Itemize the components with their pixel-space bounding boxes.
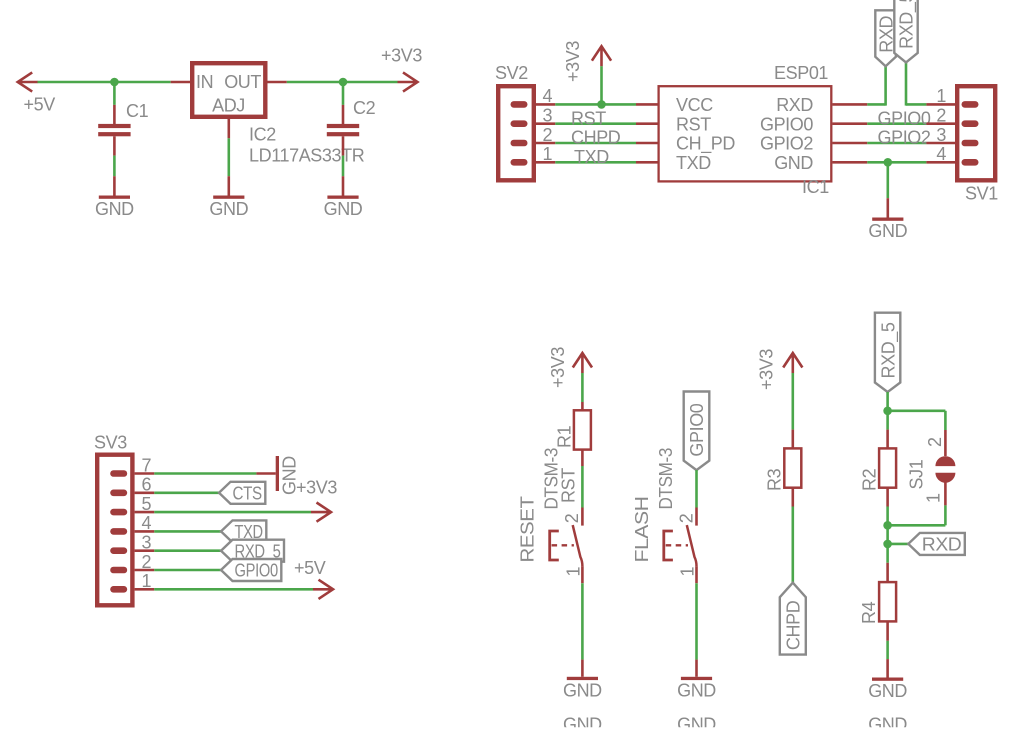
svg-text:1: 1 <box>543 144 553 164</box>
connector SV1 pad 2 <box>962 120 979 127</box>
pin SV2 4 <box>536 103 555 106</box>
wire net GND right <box>867 161 926 164</box>
svg-text:GND: GND <box>95 199 134 219</box>
junction RXD <box>883 540 892 549</box>
svg-text:RXD: RXD <box>776 95 813 115</box>
svg-text:+3V3: +3V3 <box>757 349 777 390</box>
svg-text:GPIO0: GPIO0 <box>878 108 931 128</box>
pin IC1 VCC left <box>636 103 659 106</box>
switch lever S2 FLASH <box>687 525 697 566</box>
pin IC1 CH_PD left <box>636 142 659 145</box>
pin SV2 1 <box>536 161 555 164</box>
resistor R2 <box>879 448 896 487</box>
svg-text:GND: GND <box>677 715 716 735</box>
wire net CHPD <box>555 142 636 145</box>
pin SV2 2 <box>536 142 555 145</box>
ground GND (R4) <box>872 678 903 681</box>
wire net GPIO2 right <box>867 142 926 145</box>
connector SV3 pad 4 <box>110 528 127 535</box>
svg-text:CTS: CTS <box>233 483 263 503</box>
ground GND (C1) <box>99 196 130 199</box>
svg-text:GPIO0: GPIO0 <box>760 114 813 134</box>
svg-text:GPIO0: GPIO0 <box>235 561 279 581</box>
net flag RXD_5 (R2) <box>875 313 900 392</box>
ic IC2 body <box>192 63 265 117</box>
svg-text:ADJ: ADJ <box>212 96 245 116</box>
net flag RXD_5 (top) <box>894 0 917 62</box>
pin SV1 4 <box>926 161 955 164</box>
power arrow +3V3 (R3) <box>783 353 802 373</box>
net flag RXD (top) <box>875 10 896 66</box>
svg-text:RXD_5: RXD_5 <box>897 0 918 49</box>
svg-text:1: 1 <box>936 86 946 106</box>
svg-text:GND: GND <box>563 715 602 735</box>
wire net GPIO0 right <box>867 122 926 125</box>
svg-text:4: 4 <box>543 86 553 106</box>
pin R1 bottom <box>581 450 584 466</box>
svg-text:GND: GND <box>324 199 363 219</box>
svg-text:IN: IN <box>196 72 213 92</box>
ground GND (C2) <box>327 196 358 199</box>
pin C1 top <box>113 105 116 125</box>
svg-text:+3V3: +3V3 <box>548 347 568 388</box>
svg-text:SV1: SV1 <box>965 184 998 204</box>
connector SV3 pad 1 <box>110 586 127 593</box>
wire S1 RESET to GND <box>581 583 584 659</box>
wire net TXD <box>555 161 636 164</box>
wire GND down <box>886 162 889 198</box>
wire C2 up <box>342 82 345 105</box>
connector SV3 pad 6 <box>110 490 127 497</box>
svg-text:RXD_5: RXD_5 <box>878 322 899 378</box>
capacitor C1 <box>98 124 130 128</box>
svg-text:GND: GND <box>868 221 907 241</box>
wire SJ1 bottom to junction <box>888 524 946 527</box>
wire junction to RXD flag <box>888 543 909 546</box>
ground GND (S2 FLASH) <box>681 677 712 680</box>
wire +3V3 to R1 <box>581 373 584 402</box>
svg-text:GPIO0: GPIO0 <box>687 403 707 456</box>
connector SV1 pad 1 <box>962 101 979 108</box>
wire net RXD_5 to SV1 <box>906 103 926 106</box>
connector SV3 pad 7 <box>110 470 127 477</box>
svg-text:RST: RST <box>559 468 579 503</box>
svg-text:CHPD: CHPD <box>784 600 804 650</box>
svg-text:RST: RST <box>571 108 606 128</box>
wire net CTS <box>154 491 219 494</box>
jumper SJ1 <box>935 456 955 466</box>
pin R2 top <box>886 430 889 449</box>
pin SV3 3 <box>135 549 155 552</box>
svg-text:LD117AS33TR: LD117AS33TR <box>249 146 365 166</box>
ground GND (S1 RESET) <box>567 677 598 680</box>
wire SJ1 bottom vertical <box>944 505 947 525</box>
power arrow +3V3 right <box>398 72 418 91</box>
pin SV1 2 <box>926 122 955 125</box>
connector SV3 body <box>97 455 132 606</box>
label GND partial (R4) <box>868 715 907 735</box>
net flag CHPD <box>780 583 806 655</box>
wire C1 to GND <box>113 156 116 177</box>
switch housing S2 FLASH <box>664 531 673 560</box>
net flag TXD <box>221 520 266 542</box>
pin IC1 RST left <box>636 122 659 125</box>
ground pin (ADJ) <box>228 176 231 195</box>
pin IC1 GPIO2 right <box>833 142 868 145</box>
pin IC2 OUT <box>266 81 287 84</box>
ground pin (S1 RESET) <box>581 660 584 677</box>
svg-text:IC2: IC2 <box>249 125 276 145</box>
svg-text:4: 4 <box>142 513 152 533</box>
wire +3V3 to R3 <box>791 373 794 430</box>
svg-text:C1: C1 <box>126 101 149 121</box>
wire net GND (SV3 pin7) <box>154 472 256 475</box>
wire flag RXD_5 down <box>905 62 908 105</box>
pin IC1 GPIO0 right <box>833 122 868 125</box>
pin C2 bottom <box>342 136 345 155</box>
power arrow +5V (SV3) <box>313 580 333 599</box>
wire RXD_5 flag down <box>886 392 889 430</box>
ground pin (SV3) <box>256 472 275 475</box>
wire C1 up <box>113 82 116 105</box>
pin SV3 4 <box>135 530 155 533</box>
pin IC1 RXD right <box>833 103 868 106</box>
svg-text:1: 1 <box>142 571 152 591</box>
wire net +3V3 (SV3 pin5) <box>154 511 311 514</box>
power arrow +3V3 (RESET) <box>573 353 592 373</box>
svg-text:5: 5 <box>142 494 152 514</box>
wire IC1 RXD to flag <box>867 103 885 106</box>
wire net RST <box>555 122 636 125</box>
pin S2 FLASH 2 <box>695 508 698 526</box>
svg-text:RXD: RXD <box>922 535 962 555</box>
power arrow +3V3 (SV3) <box>311 503 331 522</box>
wire net VCC <box>555 103 636 106</box>
resistor R4 <box>879 582 896 621</box>
wire ADJ to GND <box>228 138 231 176</box>
power arrow +3V3 (VCC) <box>592 46 611 66</box>
svg-text:R3: R3 <box>765 468 785 491</box>
switch actuator dashed S1 RESET <box>552 544 574 546</box>
svg-text:RESET: RESET <box>518 496 538 562</box>
svg-text:2: 2 <box>925 437 945 447</box>
switch actuator dashed S2 FLASH <box>666 544 688 546</box>
connector SV1 pad 4 <box>962 159 979 166</box>
connector SV1 body <box>957 86 995 180</box>
wire SJ1 top vertical <box>944 411 947 430</box>
pin S1 RESET 1 <box>581 566 584 583</box>
pin SV3 1 <box>135 588 155 591</box>
wire +3V3 to VCC <box>600 66 603 104</box>
svg-text:ESP01: ESP01 <box>774 63 828 83</box>
svg-text:TXD: TXD <box>676 153 711 173</box>
pin S1 RESET 2 <box>581 508 584 526</box>
svg-text:4: 4 <box>936 144 946 164</box>
pin R3 bottom <box>791 488 794 507</box>
ground GND rotated (SV3) <box>276 456 279 491</box>
svg-text:2: 2 <box>142 552 152 572</box>
wire flag RXD down <box>884 66 887 105</box>
wire C2 to GND <box>342 156 345 177</box>
svg-text:2: 2 <box>562 513 582 523</box>
resistor R1 <box>574 410 591 449</box>
pin SV1 1 <box>926 103 955 106</box>
pin SV3 2 <box>135 569 155 572</box>
svg-text:7: 7 <box>142 455 152 475</box>
svg-text:3: 3 <box>936 125 946 145</box>
wire down to R4 <box>886 544 889 563</box>
svg-text:1: 1 <box>924 493 944 503</box>
junction +5V at C1 <box>110 78 119 87</box>
svg-text:GND: GND <box>677 680 716 700</box>
svg-text:GND: GND <box>563 680 602 700</box>
connector SV2 pad 2 <box>511 140 528 147</box>
svg-text:VCC: VCC <box>676 95 713 115</box>
net flag RXD (R4) <box>908 533 965 555</box>
svg-text:2: 2 <box>676 513 696 523</box>
svg-text:+3V3: +3V3 <box>563 41 583 82</box>
wire R3 to CHPD flag <box>791 507 794 583</box>
wire net RXD_5 (SV3) <box>154 549 221 552</box>
pin SV2 3 <box>536 122 555 125</box>
resistor R3 <box>784 448 801 487</box>
svg-text:+3V3: +3V3 <box>296 478 337 498</box>
svg-text:FLASH: FLASH <box>632 497 652 563</box>
wire net +5V (SV3) <box>154 588 313 591</box>
connector SV2 pad 4 <box>511 101 528 108</box>
svg-text:DTSM-3: DTSM-3 <box>656 448 676 510</box>
connector SV2 pad 1 <box>511 159 528 166</box>
junction +3V3 at C2 <box>339 78 348 87</box>
pin C2 top <box>342 105 345 125</box>
label GND partial (FLASH) <box>677 715 716 735</box>
junction GND net <box>884 158 893 167</box>
connector SV3 pad 2 <box>110 567 127 574</box>
pin R1 top <box>581 402 584 410</box>
svg-text:SV2: SV2 <box>495 63 528 83</box>
svg-text:C2: C2 <box>353 98 376 118</box>
wire net TXD (SV3) <box>154 530 221 533</box>
svg-text:CH_PD: CH_PD <box>676 134 735 155</box>
svg-text:RST: RST <box>676 114 711 134</box>
svg-text:SV3: SV3 <box>94 433 127 453</box>
pin SJ1 2 <box>944 430 947 456</box>
svg-text:2: 2 <box>936 106 946 126</box>
pin SV1 3 <box>926 142 955 145</box>
ground pin (C1) <box>113 176 116 195</box>
ground pin (R4) <box>886 659 889 677</box>
switch lever S1 RESET <box>573 525 583 566</box>
ground GND (ADJ) <box>213 196 244 199</box>
svg-text:+3V3: +3V3 <box>381 46 422 66</box>
svg-text:IC1: IC1 <box>802 177 829 197</box>
connector SV3 pad 3 <box>110 547 127 554</box>
pin R4 bottom <box>886 621 889 640</box>
wire GPIO0 to switch <box>695 470 698 507</box>
pin S2 FLASH 1 <box>695 566 698 583</box>
wire S2 FLASH to GND <box>695 583 698 659</box>
svg-text:1: 1 <box>564 567 584 577</box>
pin IC2 ADJ <box>228 119 231 138</box>
svg-text:TXD: TXD <box>574 147 609 167</box>
pin C1 bottom <box>113 136 116 155</box>
svg-text:GND: GND <box>209 199 248 219</box>
svg-text:OUT: OUT <box>224 72 261 92</box>
svg-text:R2: R2 <box>860 468 880 491</box>
junction R2-SJ1 <box>883 521 892 530</box>
svg-text:GPIO2: GPIO2 <box>760 134 813 154</box>
svg-text:SJ1: SJ1 <box>907 459 927 489</box>
label GND partial (RESET) <box>563 715 602 735</box>
net flag CTS <box>219 482 265 504</box>
ground GND (IC1) <box>872 218 903 221</box>
pin R4 top <box>886 563 889 582</box>
svg-text:R1: R1 <box>555 425 575 448</box>
net flag GPIO0 <box>221 559 281 581</box>
pin IC2 IN <box>171 81 192 84</box>
svg-text:3: 3 <box>543 106 553 126</box>
capacitor C2 <box>327 124 359 128</box>
power arrow +5V <box>18 72 38 91</box>
net flag GPIO0 (FLASH) <box>684 392 710 471</box>
svg-text:3: 3 <box>142 533 152 553</box>
wire R4 to GND <box>886 641 889 659</box>
wire net GPIO0 (SV3) <box>154 569 221 572</box>
svg-text:+5V: +5V <box>24 95 56 115</box>
pin R2 bottom <box>886 488 889 507</box>
svg-text:GND: GND <box>868 715 907 735</box>
junction RXD_5 top <box>883 407 892 416</box>
pin SJ1 1 <box>944 482 947 505</box>
ic IC1 ESP01 body <box>659 86 832 181</box>
svg-text:2: 2 <box>543 125 553 145</box>
switch housing S1 RESET <box>550 531 559 560</box>
connector SV3 pad 5 <box>110 509 127 516</box>
ground pin (S2 FLASH) <box>695 660 698 677</box>
svg-text:GND: GND <box>868 681 907 701</box>
svg-text:R4: R4 <box>859 601 879 624</box>
pin SV3 5 <box>135 511 155 514</box>
pin R3 top <box>791 430 794 449</box>
svg-text:+5V: +5V <box>294 558 326 578</box>
connector SV2 body <box>498 86 534 180</box>
svg-text:GPIO2: GPIO2 <box>878 128 931 148</box>
connector SV2 pad 3 <box>511 120 528 127</box>
wire net +3V3 horizontal <box>287 81 398 84</box>
wire branch to SJ1 top <box>888 409 946 412</box>
pin IC1 TXD left <box>636 161 659 164</box>
junction VCC <box>597 100 606 109</box>
wire R2 to junctions <box>886 507 889 544</box>
svg-text:CHPD: CHPD <box>571 128 621 148</box>
svg-text:DTSM-3: DTSM-3 <box>542 448 562 510</box>
connector SV1 pad 3 <box>962 140 979 147</box>
wire net +5V horizontal <box>38 81 171 84</box>
pin SV3 7 <box>135 472 155 475</box>
pin SV3 6 <box>135 491 155 494</box>
svg-text:1: 1 <box>678 567 698 577</box>
ground pin (C2) <box>342 176 345 195</box>
svg-text:GND: GND <box>774 153 813 173</box>
pin IC1 GND right <box>833 161 868 164</box>
ground pin (IC1) <box>886 198 889 217</box>
wire R1 to switch <box>581 466 584 508</box>
svg-text:6: 6 <box>142 475 152 495</box>
net flag RXD_5 <box>221 540 284 562</box>
